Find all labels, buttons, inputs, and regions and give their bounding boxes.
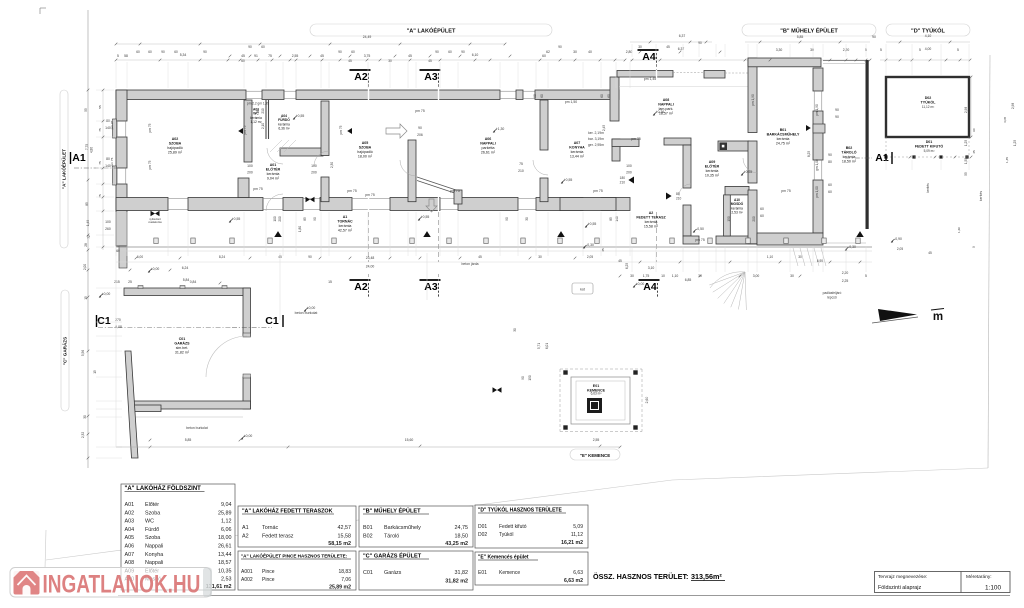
svg-text:11,12 m²: 11,12 m² [922, 105, 934, 109]
svg-text:210: 210 [518, 169, 524, 173]
svg-text:24,49: 24,49 [363, 35, 372, 39]
svg-text:A2: A2 [649, 211, 654, 215]
svg-text:25,89: 25,89 [218, 510, 232, 516]
svg-text:5,85: 5,85 [185, 438, 192, 442]
svg-text:padlásfeljáró: padlásfeljáró [823, 291, 842, 295]
svg-text:60: 60 [972, 128, 976, 132]
svg-text:25,89 m²: 25,89 m² [168, 151, 183, 155]
svg-text:Barkácsműhely: Barkácsműhely [384, 525, 421, 531]
svg-text:200: 200 [311, 171, 317, 175]
svg-text:7,75: 7,75 [85, 144, 89, 150]
svg-text:+0,55: +0,55 [296, 114, 305, 118]
svg-text:C1: C1 [265, 315, 279, 327]
svg-text:85: 85 [85, 202, 89, 206]
svg-text:75: 75 [268, 54, 272, 58]
svg-text:210: 210 [261, 108, 265, 114]
svg-text:6,36 m²: 6,36 m² [278, 127, 290, 131]
svg-text:5: 5 [880, 48, 882, 52]
svg-text:hajópadló: hajópadló [357, 150, 373, 154]
svg-text:215: 215 [114, 280, 120, 284]
svg-text:90: 90 [505, 217, 509, 221]
svg-text:kerámia: kerámia [339, 224, 352, 228]
svg-text:90: 90 [835, 108, 839, 112]
svg-text:E01: E01 [478, 570, 487, 576]
svg-text:2,00: 2,00 [83, 264, 87, 270]
svg-text:A3: A3 [424, 71, 438, 83]
svg-text:5: 5 [919, 48, 921, 52]
svg-text:±0,00: ±0,00 [151, 267, 160, 271]
svg-text:B02: B02 [846, 146, 853, 150]
svg-text:60: 60 [828, 183, 832, 187]
svg-text:gm 1,00: gm 1,00 [815, 159, 819, 171]
svg-text:90: 90 [338, 50, 342, 54]
svg-text:9,04 m²: 9,04 m² [267, 177, 280, 181]
svg-text:6,85: 6,85 [685, 278, 692, 282]
svg-text:18,57: 18,57 [218, 560, 232, 566]
svg-text:Nappali: Nappali [145, 544, 163, 550]
svg-text:SZOBA: SZOBA [359, 146, 372, 150]
svg-text:60: 60 [241, 59, 245, 63]
svg-text:NAPPALI: NAPPALI [658, 103, 674, 107]
svg-text:NAPPALI: NAPPALI [480, 142, 496, 146]
svg-text:±0,00: ±0,00 [307, 306, 316, 310]
svg-text:kerámia: kerámia [267, 172, 280, 176]
svg-text:18,00: 18,00 [218, 535, 232, 541]
svg-text:60: 60 [760, 214, 764, 218]
svg-text:45: 45 [428, 59, 432, 63]
svg-text:pm 75: pm 75 [695, 238, 705, 242]
svg-text:5,84: 5,84 [183, 278, 190, 282]
svg-text:5,09 m²: 5,09 m² [924, 149, 935, 153]
svg-text:pm 1,90: pm 1,90 [815, 104, 819, 116]
svg-text:-0,30: -0,30 [586, 243, 594, 247]
svg-text:A1: A1 [343, 215, 348, 219]
svg-text:91: 91 [254, 54, 258, 58]
svg-text:+0,55: +0,55 [744, 170, 753, 174]
svg-text:100: 100 [105, 220, 111, 224]
svg-text:"C" GARÁZS ÉPÜLET: "C" GARÁZS ÉPÜLET [363, 552, 422, 560]
svg-text:parketta: parketta [482, 146, 495, 150]
svg-text:1,80: 1,80 [298, 226, 302, 232]
svg-text:"B" MŰHELY ÉPÜLET: "B" MŰHELY ÉPÜLET [780, 26, 838, 34]
svg-text:D01: D01 [478, 524, 487, 530]
svg-text:-0,90: -0,90 [894, 237, 902, 241]
svg-text:200: 200 [752, 216, 756, 222]
svg-text:A06: A06 [125, 544, 135, 550]
svg-text:2,10: 2,10 [261, 123, 265, 129]
svg-text:C01: C01 [179, 337, 186, 341]
svg-text:kút: kút [580, 288, 585, 292]
svg-text:A01: A01 [270, 163, 277, 167]
svg-text:18,83: 18,83 [338, 569, 351, 575]
svg-text:6,06: 6,06 [221, 527, 232, 533]
svg-text:pm 75: pm 75 [243, 125, 247, 134]
svg-text:90: 90 [461, 50, 465, 54]
svg-text:C1: C1 [97, 315, 111, 327]
svg-text:150: 150 [727, 216, 731, 222]
svg-text:55: 55 [84, 108, 88, 112]
svg-text:1,60: 1,60 [957, 227, 961, 233]
svg-text:9: 9 [972, 246, 976, 248]
svg-text:A2: A2 [242, 534, 249, 540]
svg-text:kerámia: kerámia [706, 169, 719, 173]
svg-text:45: 45 [320, 54, 324, 58]
svg-text:beton burkolat: beton burkolat [186, 426, 208, 430]
svg-text:80: 80 [828, 160, 832, 164]
svg-text:60: 60 [540, 94, 544, 98]
svg-text:45: 45 [241, 54, 245, 58]
svg-text:0,84: 0,84 [190, 280, 197, 284]
svg-text:pm 75: pm 75 [631, 137, 641, 141]
svg-text:45: 45 [478, 255, 482, 259]
svg-text:A09: A09 [709, 160, 716, 164]
svg-text:Kemence: Kemence [499, 570, 520, 576]
svg-text:B01: B01 [780, 128, 787, 132]
svg-text:1,75: 1,75 [643, 274, 650, 278]
svg-text:KONYHA: KONYHA [569, 146, 585, 150]
svg-text:15,58: 15,58 [338, 534, 352, 540]
svg-text:75: 75 [519, 162, 523, 166]
svg-text:200: 200 [626, 171, 632, 175]
svg-text:210: 210 [676, 197, 682, 201]
svg-text:Földszinti alaprajz: Földszinti alaprajz [878, 585, 921, 591]
svg-text:15: 15 [328, 280, 332, 284]
svg-text:2,05: 2,05 [587, 255, 593, 259]
svg-text:28: 28 [84, 243, 88, 247]
svg-text:45: 45 [408, 54, 412, 58]
svg-text:2,20: 2,20 [842, 271, 849, 275]
svg-text:5: 5 [865, 274, 867, 278]
svg-text:31,82 m²: 31,82 m² [175, 351, 190, 355]
svg-text:26,61 m²: 26,61 m² [481, 151, 496, 155]
svg-text:2,53: 2,53 [221, 577, 232, 583]
svg-text:30: 30 [83, 415, 87, 419]
svg-text:45: 45 [348, 59, 352, 63]
svg-text:A2: A2 [354, 281, 368, 293]
svg-text:8,25: 8,25 [807, 151, 811, 157]
svg-text:A08: A08 [663, 98, 670, 102]
svg-text:Tervrajz megnevezése:: Tervrajz megnevezése: [878, 574, 927, 580]
svg-text:"D" TYÚKÓL HASZNOS TERÜLETE: "D" TYÚKÓL HASZNOS TERÜLETE [478, 506, 562, 514]
svg-text:SZOBA: SZOBA [169, 142, 182, 146]
svg-text:5,56: 5,56 [81, 350, 85, 356]
svg-text:260: 260 [105, 227, 111, 231]
svg-text:30: 30 [513, 328, 517, 332]
svg-text:58,15 m2: 58,15 m2 [328, 541, 351, 547]
svg-text:26,61: 26,61 [218, 544, 232, 550]
svg-text:2,55: 2,55 [292, 54, 299, 58]
svg-text:bar. 3,19m: bar. 3,19m [588, 137, 604, 141]
svg-text:Méretarány:: Méretarány: [966, 574, 992, 580]
svg-text:pm 75: pm 75 [781, 189, 791, 193]
svg-text:13,44: 13,44 [218, 552, 232, 558]
svg-text:±0,00: ±0,00 [636, 282, 645, 286]
svg-text:60: 60 [351, 50, 355, 54]
svg-text:Konyha: Konyha [145, 552, 163, 558]
svg-text:140: 140 [615, 216, 619, 222]
svg-text:24,00: 24,00 [366, 265, 375, 269]
svg-text:6,63 m2: 6,63 m2 [564, 578, 583, 584]
svg-text:"E" KEMENCE: "E" KEMENCE [580, 453, 610, 458]
svg-text:6,37: 6,37 [679, 34, 686, 38]
svg-text:25: 25 [128, 280, 132, 284]
svg-text:85: 85 [256, 109, 260, 113]
svg-text:1,25: 1,25 [964, 140, 968, 146]
svg-text:kerítés: kerítés [979, 191, 983, 201]
svg-text:pm 75: pm 75 [148, 123, 152, 132]
svg-text:85: 85 [609, 217, 613, 221]
svg-text:90: 90 [521, 376, 525, 380]
svg-text:1,12: 1,12 [221, 519, 232, 525]
svg-text:hajópadló: hajópadló [167, 146, 183, 150]
svg-text:4,80: 4,80 [90, 147, 94, 153]
svg-text:5: 5 [117, 54, 119, 58]
svg-text:5: 5 [957, 48, 959, 52]
svg-text:1,49: 1,49 [86, 220, 90, 226]
svg-text:ÖSSZ. HASZNOS TERÜLET:: ÖSSZ. HASZNOS TERÜLET: [593, 572, 688, 581]
svg-text:180: 180 [620, 176, 626, 180]
svg-text:csatlakozás: csatlakozás [148, 220, 162, 224]
svg-text:2,05: 2,05 [897, 247, 903, 251]
svg-text:A02: A02 [125, 510, 135, 516]
svg-text:A05: A05 [362, 141, 369, 145]
svg-text:A07: A07 [574, 141, 581, 145]
svg-text:5,71: 5,71 [537, 343, 541, 349]
svg-text:-0,50: -0,50 [696, 227, 704, 231]
svg-text:beton burkolat: beton burkolat [295, 311, 318, 315]
svg-text:ELŐTÉR: ELŐTÉR [705, 164, 720, 169]
svg-text:200: 200 [278, 216, 282, 222]
svg-text:Fürdő: Fürdő [145, 527, 159, 533]
svg-text:pm 75: pm 75 [339, 125, 343, 134]
svg-text:D02: D02 [478, 532, 487, 538]
svg-text:10: 10 [661, 274, 665, 278]
svg-text:+0,55: +0,55 [588, 222, 597, 226]
svg-text:90: 90 [558, 45, 562, 49]
svg-text:TÁROLÓ: TÁROLÓ [841, 150, 856, 155]
svg-text:6,01: 6,01 [545, 343, 549, 349]
svg-text:Szoba: Szoba [145, 535, 160, 541]
svg-text:150: 150 [528, 375, 532, 381]
svg-text:sim.bet.: sim.bet. [176, 346, 189, 350]
svg-text:90: 90 [435, 50, 439, 54]
svg-text:A02: A02 [172, 137, 179, 141]
svg-text:+0,36: +0,36 [656, 110, 665, 114]
svg-text:D02: D02 [925, 96, 932, 100]
svg-text:A05: A05 [125, 535, 135, 541]
svg-text:C01: C01 [363, 570, 373, 576]
svg-text:4,00: 4,00 [925, 47, 932, 51]
svg-text:55: 55 [98, 105, 102, 109]
svg-text:7,06: 7,06 [341, 577, 351, 583]
svg-text:2,32: 2,32 [81, 432, 85, 438]
svg-text:"A" LAKÓÉPÜLET: "A" LAKÓÉPÜLET [407, 26, 456, 34]
svg-text:"B" MŰHELY ÉPÜLET: "B" MŰHELY ÉPÜLET [363, 507, 421, 515]
svg-text:24,75: 24,75 [455, 525, 469, 531]
svg-text:90: 90 [161, 50, 165, 54]
svg-text:m: m [933, 311, 943, 323]
svg-text:2,45: 2,45 [602, 125, 606, 131]
svg-text:pm 75: pm 75 [148, 160, 152, 169]
svg-text:6,37: 6,37 [678, 47, 685, 51]
svg-text:23,48: 23,48 [366, 256, 375, 260]
svg-text:pm 75: pm 75 [110, 157, 114, 166]
svg-text:2,55: 2,55 [593, 438, 600, 442]
svg-text:6,95: 6,95 [817, 259, 823, 263]
svg-text:13,44 m²: 13,44 m² [570, 155, 585, 159]
svg-text:2,25: 2,25 [842, 279, 849, 283]
svg-text:45: 45 [601, 248, 605, 252]
svg-text:D01: D01 [926, 140, 933, 144]
svg-text:6,24: 6,24 [182, 266, 189, 270]
svg-text:25,89 m2: 25,89 m2 [329, 585, 351, 591]
svg-text:kerítés: kerítés [926, 183, 930, 193]
svg-text:-0,30: -0,30 [848, 245, 856, 249]
svg-text:+0,55: +0,55 [421, 215, 430, 219]
svg-text:11,12: 11,12 [571, 532, 583, 538]
svg-text:B01: B01 [363, 525, 373, 531]
svg-text:18,50 m²: 18,50 m² [842, 160, 857, 164]
svg-text:A1: A1 [242, 525, 249, 531]
svg-text:A4: A4 [642, 51, 656, 63]
svg-text:A4: A4 [643, 281, 657, 293]
svg-text:INGATLANOK.HU: INGATLANOK.HU [43, 570, 201, 598]
svg-text:TYÚKÓL: TYÚKÓL [921, 100, 937, 105]
svg-text:Előtér: Előtér [145, 502, 159, 508]
svg-text:100: 100 [311, 164, 317, 168]
svg-text:15,60: 15,60 [405, 438, 414, 442]
svg-text:60: 60 [116, 249, 120, 253]
svg-text:60: 60 [148, 50, 152, 54]
svg-text:42,57 m²: 42,57 m² [338, 229, 353, 233]
svg-text:GARÁZS: GARÁZS [174, 341, 190, 346]
svg-text:30: 30 [538, 255, 542, 259]
svg-text:42,57: 42,57 [338, 525, 352, 531]
svg-text:Fedett kifutó: Fedett kifutó [499, 524, 527, 530]
svg-text:55: 55 [964, 172, 968, 176]
svg-text:40: 40 [588, 50, 592, 54]
svg-text:lépcső: lépcső [827, 296, 837, 300]
svg-text:30: 30 [790, 274, 794, 278]
svg-text:60: 60 [136, 50, 140, 54]
svg-text:15: 15 [93, 370, 97, 374]
svg-text:+0,55: +0,55 [564, 178, 573, 182]
svg-text:6,00: 6,00 [137, 255, 143, 259]
svg-text:2,30: 2,30 [330, 162, 334, 168]
svg-text:45: 45 [928, 251, 932, 255]
svg-text:58: 58 [124, 54, 128, 58]
svg-text:ger. 2,95m: ger. 2,95m [588, 143, 604, 147]
svg-text:206: 206 [417, 133, 423, 137]
svg-text:4,10: 4,10 [925, 34, 932, 38]
svg-text:TORNÁC: TORNÁC [337, 219, 353, 224]
svg-text:FEDETT KIFUTÓ: FEDETT KIFUTÓ [915, 144, 944, 149]
svg-text:60: 60 [261, 45, 265, 49]
svg-text:A1: A1 [875, 152, 889, 164]
svg-text:30: 30 [638, 45, 642, 49]
svg-text:Garázs: Garázs [384, 570, 402, 576]
svg-text:pm 1,50: pm 1,50 [565, 100, 577, 104]
svg-text:WC: WC [145, 519, 154, 525]
svg-text:+1,30: +1,30 [496, 127, 505, 131]
svg-text:3,10: 3,10 [648, 266, 655, 270]
svg-text:100: 100 [626, 164, 632, 168]
svg-text:5,34: 5,34 [180, 53, 187, 57]
svg-text:90: 90 [418, 126, 422, 130]
svg-text:1,10: 1,10 [672, 274, 679, 278]
svg-text:30: 30 [573, 50, 577, 54]
svg-text:6,63: 6,63 [573, 570, 583, 576]
svg-text:100: 100 [273, 216, 277, 222]
svg-text:1,25: 1,25 [1013, 140, 1017, 146]
svg-text:90: 90 [313, 217, 317, 221]
svg-text:10,35: 10,35 [218, 568, 232, 574]
svg-text:2,60: 2,60 [645, 397, 649, 404]
svg-text:pm 1,90: pm 1,90 [751, 94, 755, 106]
svg-text:90: 90 [533, 94, 537, 98]
svg-text:Tornác: Tornác [262, 525, 278, 531]
svg-text:2,80: 2,80 [626, 50, 633, 54]
svg-text:85: 85 [676, 192, 680, 196]
svg-text:A07: A07 [125, 552, 135, 558]
svg-text:90: 90 [828, 153, 832, 157]
svg-text:Pince: Pince [262, 577, 275, 583]
svg-text:FEDETT TERASZ: FEDETT TERASZ [636, 216, 666, 220]
svg-text:45: 45 [666, 45, 670, 49]
svg-text:E01: E01 [593, 384, 599, 388]
svg-text:"A" LAKÓHÁZ FÖLDSZINT: "A" LAKÓHÁZ FÖLDSZINT [125, 484, 202, 492]
svg-text:18,50: 18,50 [455, 534, 469, 540]
svg-text:15,58 m²: 15,58 m² [644, 225, 659, 229]
svg-text:"A" LAKÓÉPÜLET: "A" LAKÓÉPÜLET [60, 149, 67, 189]
svg-text:2,53 m²: 2,53 m² [731, 211, 743, 215]
svg-text:30: 30 [810, 48, 814, 52]
svg-text:A2: A2 [354, 71, 368, 83]
svg-text:pm 75: pm 75 [450, 189, 460, 193]
svg-text:45: 45 [972, 150, 976, 154]
svg-text:30: 30 [798, 255, 802, 259]
svg-text:pm 75: pm 75 [415, 109, 425, 113]
svg-text:pm 75: pm 75 [365, 193, 375, 197]
svg-text:1:100: 1:100 [985, 585, 1001, 592]
svg-text:A06: A06 [485, 137, 492, 141]
svg-text:Fedett terasz: Fedett terasz [262, 534, 294, 540]
svg-text:pm 2,2 gm 1,95: pm 2,2 gm 1,95 [247, 102, 269, 106]
svg-text:24,75 m²: 24,75 m² [776, 142, 791, 146]
svg-text:BARKÁCSMŰHELY: BARKÁCSMŰHELY [767, 132, 800, 137]
svg-text:A1: A1 [72, 152, 86, 164]
svg-text:2,98: 2,98 [964, 107, 968, 113]
svg-text:kerámia: kerámia [843, 155, 856, 159]
svg-text:75: 75 [98, 128, 102, 132]
svg-text:"C" GARÁZS: "C" GARÁZS [62, 337, 68, 365]
svg-text:90: 90 [203, 50, 207, 54]
svg-text:1,55: 1,55 [964, 158, 968, 164]
svg-text:"E" Kemencés épület: "E" Kemencés épület [478, 555, 529, 561]
svg-text:pm 75: pm 75 [253, 187, 263, 191]
svg-text:9,04: 9,04 [221, 502, 232, 508]
svg-text:B02: B02 [363, 534, 373, 540]
svg-text:pm 75: pm 75 [110, 120, 114, 129]
svg-text:A3: A3 [424, 281, 438, 293]
svg-text:"A" LAKÓÉPÜLET PINCE HASZNOS T: "A" LAKÓÉPÜLET PINCE HASZNOS TERÜLETE: [241, 552, 348, 559]
svg-text:A001: A001 [241, 569, 253, 575]
svg-text:85: 85 [303, 217, 307, 221]
svg-text:6,10: 6,10 [472, 53, 479, 57]
svg-text:Tyúkól: Tyúkól [499, 532, 513, 538]
svg-text:100: 100 [247, 164, 253, 168]
svg-text:±0,00: ±0,00 [102, 292, 111, 296]
